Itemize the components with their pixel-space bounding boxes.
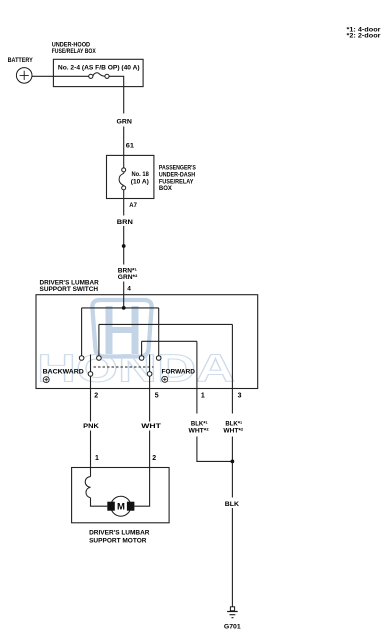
svg-text:GRN: GRN xyxy=(117,119,133,126)
svg-text:3: 3 xyxy=(238,393,242,400)
svg-text:BOX: BOX xyxy=(159,185,173,192)
svg-text:(10 A): (10 A) xyxy=(131,178,149,185)
svg-text:No. 2-4 (AS F/B OP) (40 A): No. 2-4 (AS F/B OP) (40 A) xyxy=(58,64,140,71)
svg-text:*2: 2-door: *2: 2-door xyxy=(347,33,381,40)
svg-text:1: 1 xyxy=(95,455,99,462)
svg-text:GRN*²: GRN*² xyxy=(118,274,138,281)
svg-text:61: 61 xyxy=(126,143,135,150)
svg-text:G701: G701 xyxy=(224,623,241,630)
svg-text:WHT: WHT xyxy=(141,423,161,430)
svg-text:BLK: BLK xyxy=(225,501,240,508)
svg-text:1: 1 xyxy=(201,393,205,400)
svg-text:A7: A7 xyxy=(129,202,137,209)
svg-text:BACKWARD: BACKWARD xyxy=(43,369,84,376)
svg-text:4: 4 xyxy=(127,285,131,292)
svg-text:5: 5 xyxy=(155,393,159,400)
svg-text:WHT*²: WHT*² xyxy=(189,427,210,434)
svg-text:No. 18: No. 18 xyxy=(132,171,150,178)
svg-text:2: 2 xyxy=(152,455,156,462)
svg-text:BATTERY: BATTERY xyxy=(8,57,34,64)
svg-text:SUPPORT MOTOR: SUPPORT MOTOR xyxy=(89,538,147,545)
svg-text:BRN: BRN xyxy=(117,219,133,226)
svg-text:FORWARD: FORWARD xyxy=(162,369,196,376)
svg-text:DRIVER'S LUMBAR: DRIVER'S LUMBAR xyxy=(89,530,150,537)
svg-text:SUPPORT SWITCH: SUPPORT SWITCH xyxy=(40,286,99,293)
svg-text:2: 2 xyxy=(94,393,98,400)
svg-text:PASSENGER'S: PASSENGER'S xyxy=(159,164,197,171)
svg-text:WHT*²: WHT*² xyxy=(223,427,244,434)
svg-text:FUSE/RELAY BOX: FUSE/RELAY BOX xyxy=(52,48,97,55)
svg-text:M: M xyxy=(117,502,125,513)
svg-text:PNK: PNK xyxy=(83,423,99,430)
